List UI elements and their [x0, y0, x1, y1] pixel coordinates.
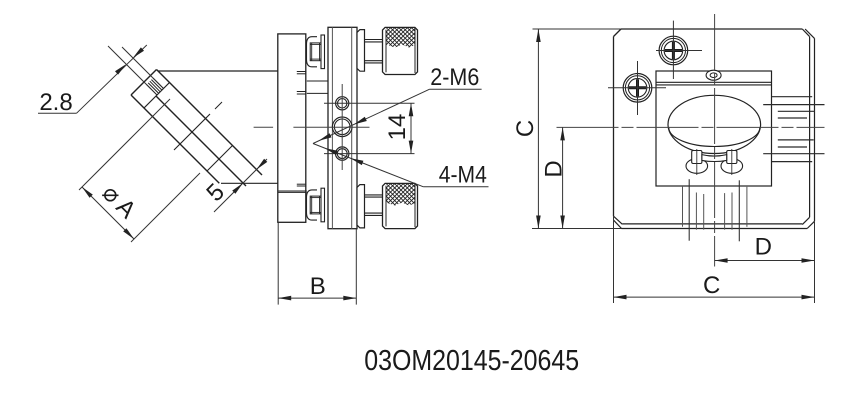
svg-text:14: 14	[384, 114, 411, 141]
svg-text:4-M4: 4-M4	[439, 161, 487, 188]
svg-text:2-M6: 2-M6	[430, 64, 479, 91]
svg-text:D: D	[755, 233, 772, 260]
svg-text:2.8: 2.8	[39, 89, 72, 116]
svg-text:C: C	[512, 120, 539, 137]
svg-text:B: B	[310, 273, 326, 300]
svg-text:D: D	[541, 160, 568, 177]
svg-text:C: C	[703, 272, 720, 299]
svg-text:03OM20145-20645: 03OM20145-20645	[364, 345, 579, 377]
